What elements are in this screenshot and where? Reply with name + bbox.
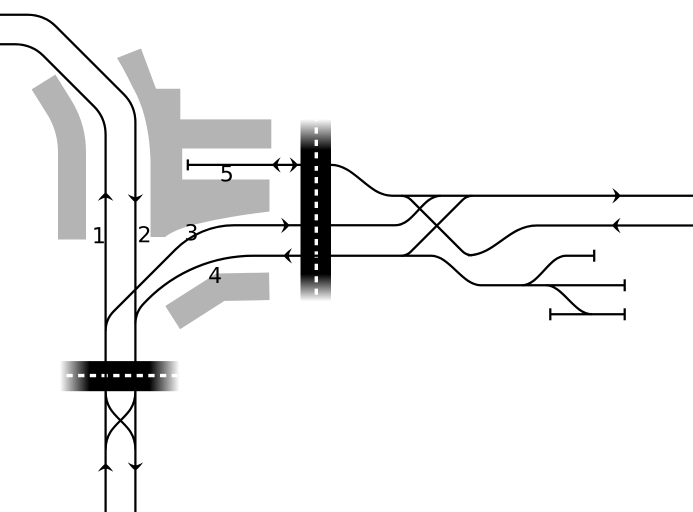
track 1: from west edge curving to south vertical (0, 44, 106, 512)
gray band track4 (disused track SE) (173, 286, 270, 317)
buffer stop tick of track 5 (187, 159, 189, 170)
scissors crossover below lower station bar: right-to-left (106, 392, 136, 450)
label 4 (209, 267, 221, 283)
arrow right on track 3 at station (281, 218, 290, 233)
gray band left (disused track SW) (44, 82, 73, 240)
arrow right on eastbound main line (612, 188, 621, 203)
track 4: from track2 vertical up to station, through bar, to east yard line (135, 256, 624, 324)
track 3: from track1 vertical up to station, through bar, rising to main east line (106, 196, 441, 331)
arrow down on track 2 (lower) (128, 462, 143, 471)
double arrow on track 5 right head (290, 157, 299, 172)
track 2: from west edge curving to south vertical (0, 15, 135, 512)
scissors crossover below lower station bar: left-to-right (106, 392, 136, 450)
label 5 (222, 165, 232, 181)
station bar lower (horizontal with gradient ends) (60, 361, 179, 391)
arrow down on track 2 (upper) (128, 194, 143, 203)
bottom siding line with two buffer stops (550, 313, 624, 315)
station bar lower white dashed centerline (66, 374, 177, 377)
label 3 (186, 224, 197, 241)
arrow left on track 4 at station (283, 248, 292, 263)
track 5: from buffer stop tick through bar, S-curve down to main east line, to east edge (188, 165, 693, 196)
crossover rising diagonal (yard to main line) (401, 196, 473, 256)
double arrow on track 5 left head (272, 157, 281, 172)
crossover falling diagonal (main line to yard) (401, 196, 472, 256)
yard branch down to bottom siding (546, 285, 592, 314)
gray central structure (disused station area) (117, 49, 271, 238)
westbound main line with bowl connection (468, 226, 693, 256)
yard line buffer stop (624, 279, 626, 291)
yard branch up to middle siding (522, 256, 594, 286)
arrow up on track 1 (lower) (98, 463, 113, 472)
arrow left on westbound main line (612, 218, 621, 233)
label 1 (94, 227, 104, 243)
middle siding buffer stop (593, 250, 595, 262)
label 2 (139, 226, 149, 242)
arrow up on track 1 (upper) (98, 192, 113, 201)
station bar upper (vertical with gradient ends) (301, 119, 332, 301)
station bar upper white dashed centerline (315, 115, 318, 299)
